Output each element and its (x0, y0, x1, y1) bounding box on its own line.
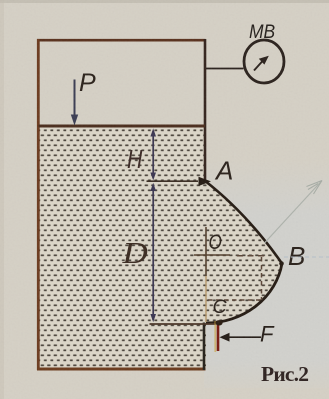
vessel left wall (37, 39, 40, 370)
arrowhead at A (199, 177, 212, 186)
dimension D line (152, 185, 154, 320)
node O cross: vertical (205, 227, 207, 276)
manometer connector line (206, 68, 244, 70)
vessel bottom edge (37, 368, 206, 371)
faint dashed level line right of B (284, 256, 329, 258)
vessel top edge (37, 39, 206, 42)
C-level line (150, 323, 217, 325)
vessel right wall (top part, down to A) (204, 39, 207, 181)
liquid surface line (39, 125, 206, 128)
dashed vertical at arc 45deg (261, 257, 263, 300)
dashed horizontal at arc 45deg (208, 299, 262, 301)
yellow streak above red mark (214, 321, 216, 352)
dark blob at C arc end (215, 320, 222, 325)
diagonal wall A-B (205, 181, 283, 264)
liquid body with texture (39, 128, 282, 370)
red surface mark below C (217, 325, 220, 351)
curved wall arc B-C (206, 264, 282, 324)
node O cross: horizontal (194, 254, 230, 256)
faint pencil arrow from B up-right (265, 181, 323, 244)
force F arrow (228, 336, 261, 338)
dashed O-B horizontal (237, 255, 268, 257)
node O faded vertical to C (205, 276, 207, 322)
manometer needle (254, 61, 263, 71)
dimension H line (152, 131, 154, 178)
scan shadow top edge (0, 0, 329, 3)
wall below C (203, 323, 206, 371)
A-level line (147, 180, 199, 182)
manometer MV circle (244, 40, 284, 83)
force P arrow (74, 80, 76, 117)
scan tone: cooler gray right-mid region (0, 0, 1, 1)
node B vertex dot (279, 261, 284, 266)
